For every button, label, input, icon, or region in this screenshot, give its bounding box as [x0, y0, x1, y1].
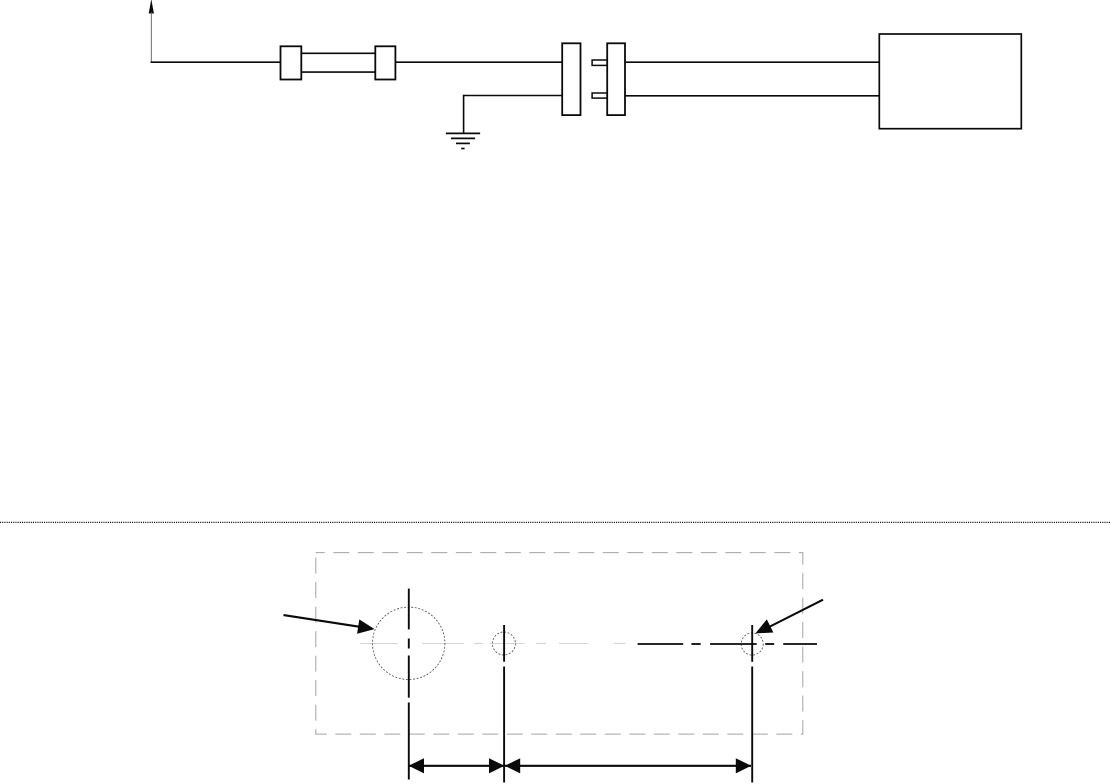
- dotted separator rule: [0, 521, 1111, 523]
- centerline vertical through H2 / extension line: [503, 625, 505, 783]
- inline component barrel top line: [301, 52, 375, 54]
- connector left half (receptacle plate): [562, 43, 580, 115]
- equipment box: [879, 34, 1021, 129]
- dimension line H2 to H3 with arrowheads: [505, 758, 751, 773]
- leader arrow to hole H3: [755, 600, 823, 634]
- hole H3 (small circle, right): [741, 633, 763, 655]
- connector pin upper: [592, 60, 607, 65]
- connector right half (plug plate): [607, 43, 625, 115]
- antenna mast (vertical line): [150, 12, 152, 62]
- inline component right cap: [375, 46, 395, 79]
- wire: inline component to connector: [395, 61, 562, 63]
- wire: connector to box (return): [625, 95, 879, 97]
- antenna arrowhead: [149, 0, 154, 14]
- centerline vertical through H3 / extension line: [751, 625, 753, 783]
- centerline vertical through H1 / extension line: [408, 589, 410, 780]
- ground wire vertical: [463, 95, 465, 134]
- panel outline (dashed): [316, 553, 803, 735]
- ground wire horizontal: [464, 95, 563, 97]
- connector pin lower: [592, 93, 607, 98]
- inline component left cap: [281, 46, 302, 79]
- hole H1 (large circle): [373, 607, 445, 679]
- ground symbol: [446, 133, 480, 148]
- hole H2 (small circle, center): [492, 632, 515, 655]
- horizontal centerline (light) through holes H1 and H2: [360, 643, 625, 645]
- inline component barrel bottom line: [301, 71, 375, 73]
- dimension line H1 to H2 with arrowheads: [409, 758, 505, 773]
- horizontal dash-dot centerline (dark) through H3: [638, 643, 817, 645]
- wire: connector to box (signal): [625, 61, 879, 63]
- leader arrow to hole H1: [284, 615, 375, 634]
- wire: antenna to inline component: [151, 61, 281, 63]
